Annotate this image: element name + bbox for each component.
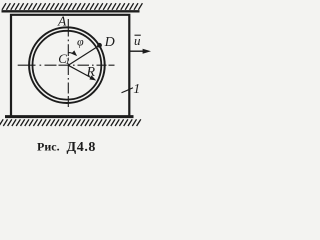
horizontal centerline (dash-dot) <box>18 64 115 66</box>
tube outer circle <box>29 27 105 103</box>
svg-text:A: A <box>57 14 67 29</box>
ceiling line <box>2 10 140 12</box>
velocity arrow u <box>130 50 144 52</box>
svg-text:Д4.8: Д4.8 <box>67 140 97 155</box>
ceiling hatch strokes <box>2 3 142 10</box>
tube inner circle <box>33 31 102 100</box>
radius line C1 to D <box>68 46 99 66</box>
svg-text:φ: φ <box>77 35 84 49</box>
floor line / plate bottom edge <box>5 115 134 118</box>
svg-text:D: D <box>104 35 115 50</box>
svg-text:1: 1 <box>65 57 70 67</box>
radius R line with arrow <box>68 65 91 78</box>
paper background <box>0 0 153 157</box>
tick through right edge for label 1 <box>122 88 134 93</box>
svg-text:R: R <box>86 65 96 80</box>
point D dot <box>97 43 102 48</box>
overbar of u label <box>135 34 141 36</box>
svg-text:Рис.: Рис. <box>37 140 60 154</box>
angle phi arc with arrow <box>68 53 75 55</box>
svg-text:u: u <box>134 33 141 48</box>
vertical centerline (dash-dot) with tick at A <box>67 19 69 107</box>
floor hatch strokes <box>0 119 141 126</box>
svg-text:1: 1 <box>133 82 140 97</box>
plate frame (square body 1) <box>11 15 129 117</box>
